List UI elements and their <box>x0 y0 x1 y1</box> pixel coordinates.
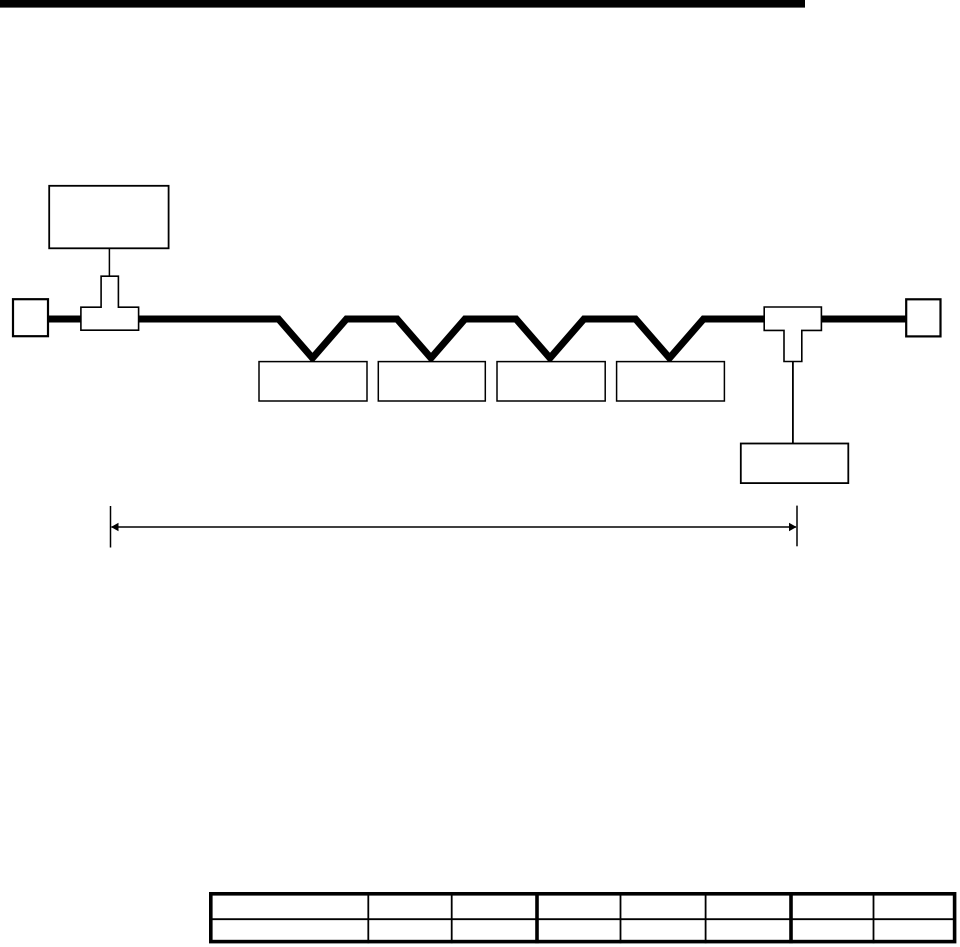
wire: trunk bus cable (thick polyline with drop Vs) <box>48 319 906 358</box>
dimension arrowhead right <box>789 523 797 532</box>
node box B2 (station 1) <box>259 362 367 401</box>
dimension line (overall distance) <box>112 526 797 528</box>
spec table column line c7 <box>873 892 875 943</box>
spec table column line c1 <box>367 892 369 943</box>
node box B3 (station 2) <box>378 362 485 401</box>
terminator R2 (right terminating resistor) <box>906 299 940 336</box>
wire: drop line from node box to left tap <box>108 248 110 276</box>
header rule bar <box>0 0 805 8</box>
node box B1 (upper left station) <box>49 186 168 249</box>
spec table row divider <box>209 918 956 920</box>
spec table outer border <box>211 894 955 942</box>
spec table column line c6 (thick group separator) <box>789 892 793 943</box>
node box B4 (station 3) <box>497 362 605 401</box>
wire: drop line from right tap to lower node box <box>792 362 794 444</box>
dimension extension tick left <box>110 506 112 548</box>
T-branch connector U2 (right tap, inverted) <box>764 307 821 362</box>
spec table column line c4 <box>620 892 622 943</box>
spec table column line c2 <box>451 892 453 943</box>
dimension arrowhead left <box>111 523 119 532</box>
spec table column line c3 (thick group separator) <box>535 892 539 943</box>
terminator R1 (left terminating resistor) <box>13 299 48 336</box>
node box B6 (lower right station) <box>741 444 849 484</box>
node box B5 (station 4) <box>617 362 725 401</box>
spec table column line c5 <box>705 892 707 943</box>
dimension extension tick right <box>796 506 798 547</box>
T-branch connector U1 (left tap) <box>81 276 139 330</box>
